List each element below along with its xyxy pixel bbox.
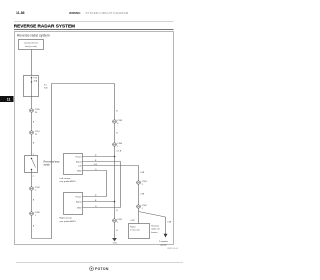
section title underline <box>14 29 174 31</box>
connector L3 <box>30 187 41 192</box>
svg-text:G304: G304 <box>113 242 117 244</box>
svg-text:switch: switch <box>44 164 51 167</box>
wire inside box B <box>31 78 33 97</box>
svg-text:B5FT-01-04: B5FT-01-04 <box>167 248 178 250</box>
svg-text:1 host unit: 1 host unit <box>130 229 140 232</box>
svg-text:. SYSTEM CIRCUIT DIAGRAM: . SYSTEM CIRCUIT DIAGRAM <box>84 11 129 15</box>
probe1 wire pin3 <box>83 166 139 224</box>
svg-text:Radar: Radar <box>130 226 136 229</box>
svg-text:Signal: Signal <box>76 161 82 163</box>
svg-text:FOTON: FOTON <box>95 267 109 271</box>
reverse radar host box <box>129 224 150 239</box>
svg-text:Signal: Signal <box>76 201 82 203</box>
svg-text:GND: GND <box>77 207 82 209</box>
fuse F19 pin dots <box>31 77 32 78</box>
svg-text:Reversing lamp: Reversing lamp <box>44 160 61 163</box>
right rear radar probe box <box>64 193 83 215</box>
probe1 wire pin4 <box>83 171 107 197</box>
svg-text:radar ctrl: radar ctrl <box>151 228 160 231</box>
probe2 wire pin3 <box>83 207 121 209</box>
Foton logo <box>90 267 109 271</box>
wire switch C down <box>31 173 33 239</box>
fuse box A (central electric box) <box>19 40 44 50</box>
svg-text:2 speaker: 2 speaker <box>159 240 168 243</box>
connector L2 <box>30 131 41 136</box>
svg-text:buzzer: buzzer <box>151 231 158 234</box>
svg-text:11: 11 <box>7 98 11 102</box>
wire bottom jog <box>32 84 52 239</box>
wire box A to box B <box>31 50 33 76</box>
svg-text:rear probe ASSY: rear probe ASSY <box>60 220 77 223</box>
wire box B down to switch C <box>31 97 33 156</box>
svg-text:11-86: 11-86 <box>16 11 25 15</box>
branch wire diagonal <box>139 212 166 218</box>
svg-text:WIRING: WIRING <box>69 11 81 15</box>
branch arrowhead <box>164 234 168 238</box>
connector A2 <box>113 143 123 148</box>
relay box B <box>24 76 39 97</box>
svg-text:rear probe ASSY: rear probe ASSY <box>60 180 77 183</box>
svg-text:REVERSE RADAR SYSTEM: REVERSE RADAR SYSTEM <box>14 24 75 29</box>
probe1 wire pin1 <box>83 156 115 158</box>
svg-text:Central electric: Central electric <box>24 42 39 45</box>
probe2 wire pin1 <box>83 196 107 198</box>
svg-text:Right sensor,: Right sensor, <box>60 217 73 220</box>
header rule <box>14 21 174 23</box>
svg-text:Power: Power <box>76 155 82 158</box>
svg-text:LIN: LIN <box>78 165 82 167</box>
switch contacts <box>31 158 32 159</box>
svg-text:Reverse: Reverse <box>151 225 160 228</box>
feed wire to bus A <box>52 83 115 85</box>
probe1 wire pin2 <box>83 162 121 208</box>
footer rule <box>16 262 183 264</box>
svg-text:Left sensor,: Left sensor, <box>60 177 72 180</box>
bus A vertical <box>114 84 116 239</box>
left rear radar probe box <box>64 154 83 175</box>
svg-text:Reverse radar system: Reverse radar system <box>17 34 50 38</box>
connector D1 <box>137 181 148 186</box>
connector D2 <box>137 205 148 210</box>
svg-text:box (in cab): box (in cab) <box>25 46 37 48</box>
probe2 wire pin2 <box>83 201 115 203</box>
chapter tab 11 <box>0 96 14 102</box>
connector A1 <box>113 120 123 125</box>
reversing lamp switch box C <box>25 156 38 173</box>
connector A3 <box>113 219 123 224</box>
connector L4 <box>30 212 41 217</box>
connector L1 <box>30 109 41 114</box>
svg-text:Power: Power <box>76 195 82 198</box>
svg-text:system: system <box>160 243 167 246</box>
svg-text:0.5 B: 0.5 B <box>117 151 122 153</box>
svg-text:GND: GND <box>77 170 82 172</box>
junction node probe1 pin1 <box>114 156 116 158</box>
ground G304 <box>112 238 117 244</box>
diagram outer frame <box>15 32 174 245</box>
junction node probe2 pin2 <box>114 201 116 203</box>
branch wire stem <box>165 217 167 234</box>
